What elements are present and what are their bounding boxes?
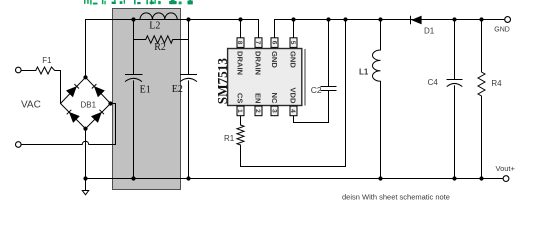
IC side shadow line	[304, 49, 306, 106]
svg-text:C4: C4	[428, 78, 439, 87]
svg-text:E1: E1	[140, 84, 151, 95]
pin numbers	[236, 41, 296, 113]
svg-text:C2: C2	[311, 85, 322, 95]
capacitor C2	[328, 20, 330, 87]
svg-text:SM7513: SM7513	[215, 58, 230, 105]
pin 6 box	[271, 38, 278, 48]
svg-text:4: 4	[289, 109, 296, 113]
pin 8 box	[237, 38, 244, 48]
svg-text:F1: F1	[42, 56, 52, 65]
svg-text:E2: E2	[172, 84, 183, 95]
svg-text:R4: R4	[491, 79, 502, 88]
diode D1 cathode bar	[410, 16, 412, 24]
pin 1 box	[237, 106, 244, 116]
diode D1 arrow	[411, 16, 421, 25]
capacitor C4	[454, 20, 456, 80]
svg-text:R1: R1	[224, 134, 235, 143]
svg-text:5: 5	[289, 41, 296, 45]
wire: bridge+ to top rail, rail segment 1 to pin7	[86, 20, 259, 78]
svg-text:DRAIN: DRAIN	[236, 51, 245, 75]
IC pin labels	[236, 51, 298, 104]
bridge diode arrows	[67, 84, 104, 122]
svg-text:GND: GND	[494, 27, 510, 34]
pin 2 box	[255, 106, 262, 116]
bridge rectifier DB1 outline	[61, 77, 111, 128]
ground	[85, 179, 87, 191]
pin 7 box	[255, 38, 262, 48]
resistor R1	[237, 20, 346, 167]
svg-text:CS: CS	[236, 93, 245, 104]
terminal GND	[505, 17, 511, 23]
svg-text:VDD: VDD	[289, 87, 298, 104]
svg-text:R2: R2	[154, 42, 166, 53]
svg-text:GND: GND	[270, 51, 279, 68]
svg-text:2: 2	[254, 109, 261, 113]
fuse F1	[21, 67, 60, 104]
svg-text:D1: D1	[424, 27, 435, 36]
svg-text:NC: NC	[270, 93, 279, 104]
svg-text:DB1: DB1	[81, 100, 97, 109]
svg-text:L1: L1	[359, 68, 369, 77]
capacitor E1	[133, 20, 135, 75]
wire: bridge- to bottom rail	[85, 129, 87, 179]
wire: VAC lower with hop over	[21, 104, 115, 145]
pin 5 box	[290, 38, 297, 48]
svg-text:3: 3	[271, 109, 278, 113]
svg-text:deisn With sheet schematic: deisn With sheet schematic note	[342, 193, 450, 202]
svg-text:VAC: VAC	[21, 100, 41, 111]
svg-text:8: 8	[236, 41, 243, 45]
pin 3 box	[271, 106, 278, 116]
terminal VAC bottom	[15, 142, 21, 148]
resistor R2	[134, 36, 189, 43]
clipped green caption text (top edge)	[84, 0, 193, 5]
svg-text:6: 6	[271, 41, 278, 45]
svg-text:L2: L2	[149, 20, 160, 31]
EMI filter shaded block	[113, 9, 181, 190]
terminal Vout+	[503, 176, 509, 182]
inductor L2	[140, 13, 177, 20]
svg-text:7: 7	[254, 41, 261, 45]
wire: pin8 stub	[240, 20, 242, 39]
capacitor E2	[188, 20, 190, 75]
pin 4 box	[290, 106, 297, 116]
svg-text:GND: GND	[289, 51, 298, 68]
svg-text:Vout+: Vout+	[496, 164, 516, 173]
bottom rail	[86, 178, 504, 180]
resistor R4	[478, 20, 485, 179]
terminal VAC top	[15, 67, 21, 73]
wire: pin6 to GND rail segment 2	[275, 20, 505, 39]
inductor L1	[373, 20, 381, 179]
svg-text:DRAIN: DRAIN	[254, 51, 263, 75]
wire: pin5 stub	[293, 20, 295, 38]
svg-text:EN: EN	[254, 93, 263, 104]
svg-text:1: 1	[236, 109, 243, 113]
IC U1 body	[228, 49, 302, 106]
